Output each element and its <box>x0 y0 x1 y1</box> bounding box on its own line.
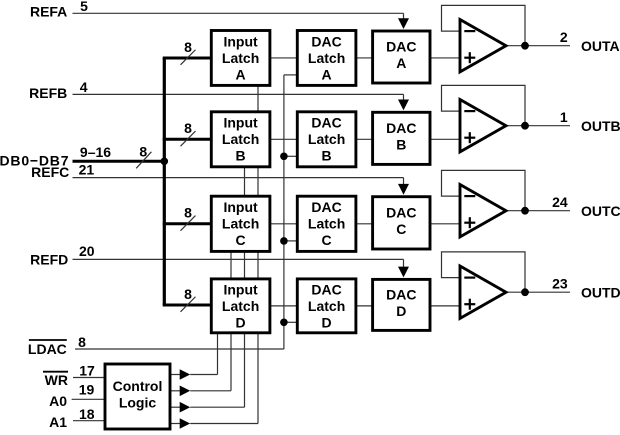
wire REFB to DAC B <box>73 94 410 110</box>
svg-text:Latch: Latch <box>308 298 345 314</box>
wire DAC A to op-amp + input <box>430 57 460 59</box>
svg-text:DAC: DAC <box>311 115 341 131</box>
arrow control output <box>180 402 191 413</box>
svg-text:D: D <box>396 303 406 319</box>
wire op-amp B feedback loop <box>442 85 526 125</box>
svg-text:DAC: DAC <box>311 199 341 215</box>
svg-text:19: 19 <box>79 381 95 397</box>
svg-text:Latch: Latch <box>222 131 259 147</box>
wire REFC to DAC C <box>73 178 410 195</box>
wire op-amp C output <box>506 210 570 212</box>
svg-text:18: 18 <box>79 406 95 422</box>
svg-text:Input: Input <box>223 199 258 215</box>
svg-text:C: C <box>396 221 406 237</box>
input latch A <box>211 31 270 86</box>
svg-text:D: D <box>236 314 246 330</box>
wire Input Latch D to DAC Latch D <box>270 305 297 307</box>
svg-text:REFC: REFC <box>31 164 69 180</box>
wire DAC B to op-amp + input <box>430 138 460 140</box>
svg-text:Latch: Latch <box>308 50 345 66</box>
op-amp A <box>460 20 506 72</box>
svg-text:17: 17 <box>79 363 95 379</box>
svg-text:8: 8 <box>184 286 192 302</box>
svg-text:A0: A0 <box>49 393 67 409</box>
svg-text:D: D <box>322 314 332 330</box>
wire LDAC stub to DAC Latch A <box>284 74 297 76</box>
label LDAC (overline) <box>28 340 67 357</box>
wire control-enable to Input Latch C <box>190 251 231 390</box>
svg-text:REFB: REFB <box>29 85 67 101</box>
svg-text:5: 5 <box>80 0 88 14</box>
svg-text:Latch: Latch <box>222 50 259 66</box>
wire control-enable to Input Latch B <box>190 167 244 407</box>
wire control-enable to Input Latch D <box>190 333 217 375</box>
node OUTD <box>521 288 529 296</box>
svg-text:REFD: REFD <box>30 252 68 268</box>
svg-text:A: A <box>396 55 406 71</box>
wire op-amp D feedback loop <box>442 252 526 292</box>
svg-text:20: 20 <box>79 243 95 259</box>
wire LDAC vertical rail <box>75 75 284 349</box>
wire DAC Latch C to DAC C <box>356 223 373 225</box>
wire data bus vertical <box>163 58 166 305</box>
dac B <box>373 112 430 164</box>
dac latch C <box>297 196 356 251</box>
op-amp B <box>460 100 506 152</box>
wire control output stub <box>170 374 180 376</box>
dac latch B <box>297 112 356 167</box>
arrow control output <box>180 418 191 429</box>
svg-text:OUTB: OUTB <box>581 118 620 134</box>
svg-text:DAC: DAC <box>311 33 341 49</box>
svg-text:9–16: 9–16 <box>80 144 111 160</box>
bus width slash D <box>181 297 196 312</box>
wire Input Latch C to DAC Latch C <box>270 223 297 225</box>
svg-text:DAC: DAC <box>311 281 341 297</box>
wire bus branch to Input Latch A <box>163 56 212 59</box>
svg-text:21: 21 <box>79 161 95 177</box>
svg-text:8: 8 <box>139 144 147 160</box>
bus width slash A <box>181 50 196 65</box>
label WR (overline) <box>43 372 68 388</box>
svg-text:Latch: Latch <box>308 131 345 147</box>
wire LDAC stub to DAC Latch D <box>284 321 297 323</box>
svg-text:4: 4 <box>80 79 88 95</box>
svg-text:C: C <box>236 232 246 248</box>
arrow control output <box>180 386 191 397</box>
wire REFD to DAC D <box>73 259 410 277</box>
dac D <box>373 279 430 330</box>
control logic U1 <box>105 364 170 429</box>
dac latch A <box>297 31 356 86</box>
svg-text:8: 8 <box>184 205 192 221</box>
svg-text:8: 8 <box>184 39 192 55</box>
svg-text:OUTA: OUTA <box>581 38 620 54</box>
wire LDAC stub to DAC Latch C <box>284 240 297 242</box>
wire Input Latch B to DAC Latch B <box>270 138 297 140</box>
dac A <box>373 31 430 83</box>
bus width slash B <box>181 131 196 146</box>
wire op-amp C feedback loop <box>442 170 526 210</box>
svg-text:OUTD: OUTD <box>581 285 620 301</box>
wire DAC Latch A to DAC A <box>356 57 373 59</box>
op-amp C <box>460 185 506 237</box>
bus width slash C <box>181 216 196 231</box>
junction LDAC node B <box>280 153 288 161</box>
svg-text:Control: Control <box>113 378 163 394</box>
svg-text:8: 8 <box>184 120 192 136</box>
node OUTA <box>521 42 529 50</box>
svg-text:Latch: Latch <box>222 298 259 314</box>
node OUTC <box>521 207 529 215</box>
svg-text:Input: Input <box>223 33 258 49</box>
svg-text:DAC: DAC <box>386 39 416 55</box>
wire Input Latch A to DAC Latch A <box>270 57 297 59</box>
wire op-amp B output <box>506 125 570 127</box>
svg-text:B: B <box>396 136 406 152</box>
dac C <box>373 197 430 249</box>
svg-text:Latch: Latch <box>308 216 345 232</box>
svg-text:C: C <box>322 232 332 248</box>
wire DAC D to op-amp + input <box>430 305 460 307</box>
wire op-amp A feedback loop <box>442 5 526 45</box>
svg-text:WR: WR <box>45 372 68 388</box>
arrow control output <box>180 369 191 380</box>
svg-text:Input: Input <box>223 281 258 297</box>
input latch D <box>211 279 270 333</box>
wire op-amp D output <box>506 291 570 293</box>
svg-text:Latch: Latch <box>222 216 259 232</box>
svg-text:OUTC: OUTC <box>581 203 620 219</box>
svg-text:8: 8 <box>78 334 86 350</box>
wire bus branch to Input Latch B <box>163 138 212 141</box>
wire control output stub <box>170 406 180 408</box>
svg-text:B: B <box>236 148 246 164</box>
svg-text:24: 24 <box>552 194 568 210</box>
svg-text:DAC: DAC <box>386 287 416 303</box>
input latch B <box>211 112 270 167</box>
dac latch D <box>297 279 356 333</box>
node OUTB <box>521 122 529 130</box>
wire REFA to DAC A <box>73 13 410 29</box>
wire op-amp A output <box>506 45 570 47</box>
wire bus branch to Input Latch C <box>163 222 212 225</box>
svg-text:B: B <box>322 148 332 164</box>
bus width slash main <box>136 152 151 169</box>
wire DAC Latch D to DAC D <box>356 305 373 307</box>
svg-text:1: 1 <box>560 109 568 125</box>
junction data bus node <box>161 158 169 166</box>
svg-text:23: 23 <box>552 276 568 292</box>
svg-text:Logic: Logic <box>119 395 157 411</box>
svg-text:REFA: REFA <box>30 4 67 20</box>
svg-text:A1: A1 <box>49 414 67 430</box>
wire A0 input <box>72 398 105 400</box>
svg-text:DAC: DAC <box>386 204 416 220</box>
svg-text:2: 2 <box>560 29 568 45</box>
svg-text:DAC: DAC <box>386 120 416 136</box>
svg-text:A: A <box>322 66 332 82</box>
svg-text:A: A <box>236 66 246 82</box>
wire A1 input <box>73 420 105 422</box>
svg-text:Input: Input <box>223 115 258 131</box>
input latch C <box>211 196 270 251</box>
wire control-enable to Input Latch A <box>190 85 258 423</box>
junction LDAC node D <box>280 319 288 327</box>
wire control output stub <box>170 390 180 392</box>
svg-text:LDAC: LDAC <box>28 341 67 357</box>
wire control output stub <box>170 423 180 425</box>
wire DAC C to op-amp + input <box>430 223 460 225</box>
wire DB0-DB7 bus <box>73 160 165 163</box>
wire DAC Latch B to DAC B <box>356 138 373 140</box>
wire WR input <box>73 377 105 379</box>
op-amp D <box>460 266 506 318</box>
junction LDAC node C <box>280 237 288 245</box>
wire bus branch to Input Latch D <box>163 303 212 306</box>
wire LDAC stub to DAC Latch B <box>284 155 297 157</box>
